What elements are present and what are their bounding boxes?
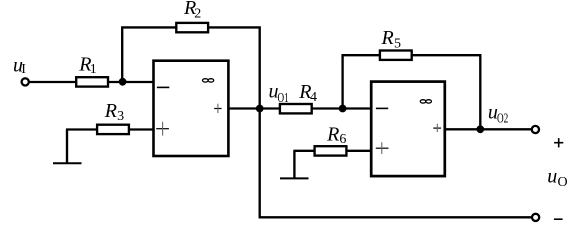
- wire U1 output to R4: [228, 107, 280, 109]
- wire R1 to op-amp U1 inverting input: [108, 81, 154, 83]
- wire R5 to node u_O2 (down right side): [412, 55, 481, 129]
- svg-text:3: 3: [117, 109, 124, 124]
- svg-text:u: u: [547, 165, 557, 187]
- U1 inverting input minus sign: [157, 86, 169, 88]
- bottom output terminal (minus): [532, 214, 539, 221]
- resistor R3: [97, 125, 129, 134]
- svg-text:R: R: [326, 123, 339, 145]
- label R4: [298, 81, 317, 105]
- resistor R4: [280, 104, 312, 113]
- label minus polarity: [554, 218, 563, 220]
- op-amp U1 box: [154, 61, 229, 156]
- resistor R6: [315, 146, 347, 155]
- U2 inverting input minus sign: [376, 107, 388, 109]
- wire U2 output to top output terminal: [445, 128, 532, 130]
- wire R6 to op-amp U2 non-inverting input: [346, 150, 371, 152]
- resistor R5: [380, 51, 412, 60]
- U1 output plus sign: [214, 104, 221, 113]
- wire node A up to R2: [122, 27, 176, 82]
- U2 non-inverting input plus sign: [376, 142, 389, 154]
- U1 non-inverting input plus sign: [156, 122, 169, 136]
- label R6: [326, 123, 346, 147]
- label R1: [78, 53, 96, 77]
- node u_O2 junction dot: [476, 125, 484, 133]
- svg-text:1: 1: [90, 62, 97, 77]
- label R3: [104, 100, 124, 124]
- wire node B up to R5: [343, 55, 380, 108]
- label R2: [183, 0, 201, 22]
- label u_O1: [269, 81, 289, 106]
- wire R3 to op-amp U1 non-inverting input: [129, 128, 154, 130]
- svg-text:2: 2: [194, 7, 201, 22]
- svg-text:I: I: [21, 62, 26, 77]
- node u_O1 junction dot: [256, 105, 264, 113]
- resistor R2: [176, 23, 208, 32]
- label u_O: [547, 165, 567, 190]
- wire R2 to node u_O1 (down right side): [208, 27, 260, 108]
- svg-text:O: O: [558, 175, 568, 190]
- input terminal u_I: [22, 78, 29, 85]
- label u_I: [13, 55, 26, 78]
- svg-text:5: 5: [394, 37, 401, 52]
- svg-text:R: R: [381, 27, 394, 49]
- wire input to R1: [29, 81, 76, 83]
- node B junction dot: [339, 105, 347, 113]
- wire node u_O1 down to bottom rail: [260, 109, 532, 218]
- ground G2: [280, 151, 309, 179]
- svg-text:4: 4: [310, 90, 317, 105]
- wire ground G2 to R6: [293, 150, 314, 152]
- op-amp U2 box: [371, 82, 445, 177]
- svg-text:R: R: [104, 100, 117, 122]
- label u_O2: [488, 102, 508, 127]
- resistor R1: [76, 77, 108, 86]
- top output terminal (plus): [532, 126, 539, 133]
- node A junction dot: [119, 78, 127, 86]
- wire ground G1 to R3: [66, 128, 97, 130]
- svg-text:6: 6: [339, 132, 346, 147]
- wire R4 to op-amp U2 inverting input: [312, 107, 372, 109]
- U2 output plus sign: [433, 124, 441, 132]
- label plus polarity: [554, 138, 563, 147]
- label R5: [381, 27, 402, 51]
- svg-text:O2: O2: [497, 112, 508, 127]
- U2 infinity symbol: [420, 100, 431, 103]
- U1 infinity symbol: [203, 79, 214, 82]
- ground G1: [53, 130, 82, 164]
